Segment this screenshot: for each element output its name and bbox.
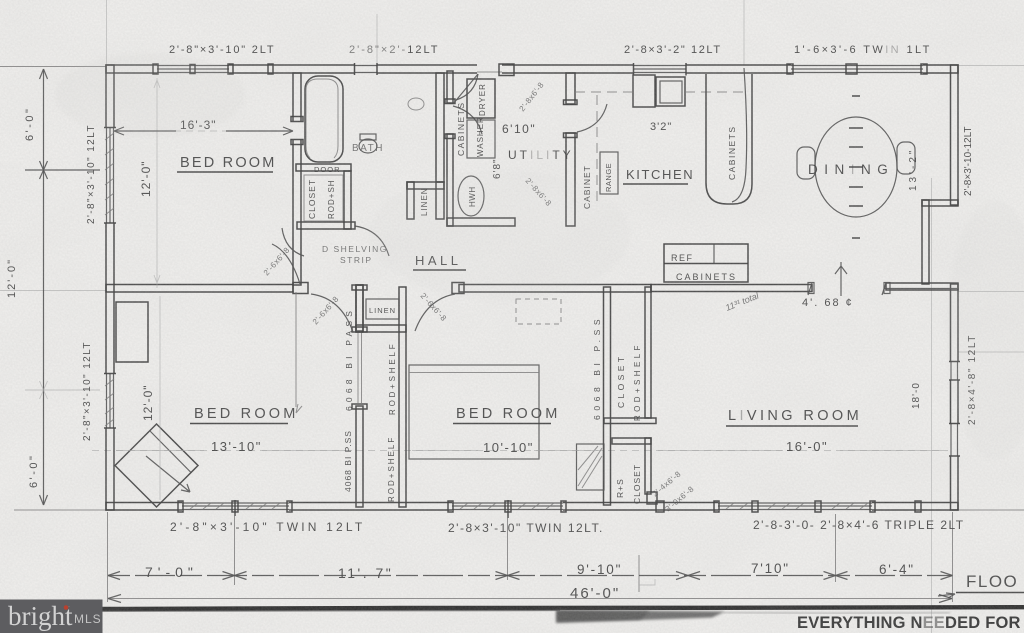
bathtub bbox=[305, 76, 343, 162]
window left BR1bottom jambs bbox=[104, 374, 116, 429]
window top BR1 jamb left bbox=[153, 64, 158, 74]
smudge wedge under heavy rule bbox=[556, 610, 725, 623]
extension line bottom x108 bbox=[107, 512, 109, 602]
REF cabinet divider vertical bbox=[713, 244, 715, 264]
tall cabinet inner curve bbox=[732, 68, 747, 202]
window bottom BR2 center tick bbox=[507, 500, 509, 518]
left dim arrow bottom bbox=[40, 495, 48, 505]
svg-text:bright: bright bbox=[8, 601, 73, 631]
window top dining jamb left bbox=[787, 64, 793, 74]
closet strip BR1: left wall lower bbox=[356, 406, 363, 507]
overall dim left arrow bbox=[108, 595, 121, 603]
window bottom BR1 hatch bbox=[190, 503, 280, 509]
window left BR1bottom lines bbox=[107, 374, 114, 428]
door arc kitchen bbox=[577, 104, 607, 132]
bedroom1 bed inner edge bbox=[150, 431, 191, 473]
window left BR1top gap bbox=[105, 128, 116, 223]
sheet crease right lower bbox=[931, 178, 933, 633]
window left BR1top lines bbox=[107, 128, 114, 223]
left dim tick 170 bbox=[25, 161, 100, 179]
kitchen sink right basin bbox=[656, 77, 685, 106]
jamb bath left wall bottom bbox=[291, 140, 303, 145]
dim line 13-10 right part bbox=[262, 450, 352, 452]
linen closet (bath) left wall bbox=[407, 182, 414, 219]
door top utility sill bbox=[477, 71, 502, 73]
window bottom BR2 gap bbox=[452, 502, 563, 512]
BR2 corner closet hatch lines bbox=[578, 446, 602, 488]
window bottom BR2 jamb left bbox=[448, 501, 453, 512]
window bottom BR2 lines bbox=[452, 503, 563, 510]
jamb bedroom2 door right bbox=[452, 283, 464, 294]
closet strip BR2/living: left wall bbox=[604, 287, 611, 505]
wall utility/kitchen lower bbox=[566, 133, 575, 226]
bottom dim arrows at 835 bbox=[824, 572, 848, 580]
bipass door track BR1 closet line2 bbox=[361, 332, 363, 404]
washer box bbox=[467, 120, 495, 158]
left dim line vertical bbox=[43, 69, 45, 505]
door arc bath closet bbox=[355, 226, 389, 256]
window top BR1 gap bbox=[157, 64, 229, 75]
door top utility jamb stub bbox=[499, 64, 514, 76]
bottom dim arrows at 952 bbox=[941, 572, 953, 580]
dining table bbox=[815, 117, 897, 217]
window left BR1top jambs bbox=[104, 128, 116, 224]
hall bottom wall west segment bbox=[106, 285, 293, 293]
kitchen sink right inner bbox=[660, 81, 682, 103]
jamb living opening left bbox=[808, 283, 814, 294]
door arc utility back door bbox=[456, 74, 478, 100]
wall dining bottom bbox=[886, 283, 958, 290]
wall utility/kitchen upper bbox=[566, 73, 575, 104]
linen closet (bath) right wall bbox=[436, 182, 444, 219]
bottom wall small jamb right of triple bbox=[915, 501, 921, 512]
heavy rule bottom bbox=[95, 607, 1024, 609]
dim 4-68 line dining bbox=[884, 288, 958, 290]
closet strip cap at 418 bbox=[604, 418, 656, 424]
left dim arrow top bbox=[40, 69, 48, 79]
wall utility left lower bbox=[447, 134, 453, 226]
jamb kitchen door bottom bbox=[564, 133, 578, 138]
brightMLS watermark box bbox=[0, 600, 103, 633]
jamb living opening right bbox=[884, 283, 890, 294]
bathtub inner line bbox=[306, 79, 338, 158]
wall jog dining recess top bbox=[922, 200, 958, 206]
extension bracket at 640 bbox=[639, 579, 655, 585]
window top BR1 jamb right bbox=[228, 64, 233, 74]
window bottom living jamb right bbox=[870, 501, 875, 512]
window bottom BR1 gap bbox=[182, 502, 289, 512]
wall dining recess vertical bbox=[922, 200, 929, 284]
left dim tick 390 bbox=[25, 381, 100, 399]
outer wall top bbox=[106, 65, 958, 73]
guide line hall level extension left bbox=[0, 290, 106, 292]
dining chair left bbox=[797, 147, 815, 179]
extension line bottom x835 bbox=[835, 514, 837, 582]
closet bath: inner liner bbox=[304, 175, 343, 221]
bedroom2 bed rectangle bbox=[409, 365, 539, 459]
window bottom living lines bbox=[718, 503, 872, 510]
REF cabinet divider horizontal bbox=[664, 263, 748, 265]
smudge blotch right bbox=[947, 200, 1024, 460]
window bottom BR2 hatch bbox=[460, 503, 554, 509]
HWH circle bbox=[458, 176, 484, 216]
jamb bedroom1 door left bbox=[293, 283, 308, 294]
door arc bedroom2 bbox=[415, 294, 455, 331]
guide line bottom wall extension right bbox=[958, 509, 1024, 511]
toilet tank bbox=[360, 134, 376, 140]
BR2 corner closet hatch box bbox=[577, 444, 605, 490]
linen closet (bath) top wall bbox=[407, 182, 444, 189]
closet strip BR1: cap top bbox=[352, 285, 367, 290]
window top kitchen lines bbox=[634, 66, 686, 73]
smudge wedge core bbox=[557, 611, 650, 622]
bedroom2 bed top inner bbox=[409, 372, 539, 374]
jamb kitchen door top bbox=[564, 100, 578, 105]
window bottom BR1 jamb right bbox=[287, 501, 292, 512]
smudge tail right of wedge bbox=[723, 612, 950, 614]
wall utility left upper bbox=[447, 71, 453, 103]
window right living upper jambs bbox=[949, 362, 960, 381]
svg-text:MLS: MLS bbox=[74, 612, 102, 626]
kitchen counter dash along wall bbox=[596, 95, 598, 205]
wall bath left / bedroom1 right bbox=[293, 73, 301, 285]
bottom dim line y575 bbox=[108, 575, 952, 577]
extension line bottom x234 bbox=[234, 516, 236, 585]
door arc bedroom1 bbox=[311, 294, 353, 332]
wall bath bottom bbox=[296, 164, 351, 171]
range box bbox=[600, 152, 618, 194]
toilet bbox=[359, 139, 377, 153]
guide line top wall extension left bbox=[0, 66, 106, 68]
dim 16-3 line BR1top bbox=[114, 127, 293, 135]
window top BR1 mullion bbox=[190, 65, 195, 74]
window top bath gap bbox=[355, 64, 377, 75]
hall linen closet left wall bbox=[356, 285, 363, 332]
window top bath lines bbox=[355, 66, 377, 73]
bipass door track BR1 closet bbox=[357, 332, 359, 404]
construction line below bath wall bbox=[296, 292, 302, 413]
dim extension 12-0 BR1top vertical bbox=[154, 78, 160, 288]
faint dim guide across bottom rooms bbox=[92, 450, 948, 452]
window right living upper lines bbox=[951, 362, 958, 380]
extension line bottom x952 bbox=[952, 512, 954, 602]
kitchen sink left basin bbox=[633, 75, 655, 107]
dim extension 12-0 BR1 vertical bbox=[159, 296, 161, 500]
opening living leader tick right bbox=[882, 283, 886, 295]
dim 4-68 tick bbox=[835, 262, 847, 296]
sheet crease above kitchen bbox=[743, 0, 745, 65]
R+S closet top wall bbox=[612, 438, 651, 444]
opening living leader tick left bbox=[808, 283, 812, 295]
window right living lower gap bbox=[950, 424, 960, 456]
jamb tick top wall at 270 bbox=[268, 64, 273, 74]
extension line bottom x640 bbox=[638, 555, 640, 592]
smudge blotch hall bbox=[370, 170, 630, 300]
hall bottom wall mid segment bbox=[459, 285, 651, 293]
bedroom1 bed arrow bbox=[146, 456, 190, 492]
overall dim right arrow bbox=[939, 595, 952, 603]
bottom dim arrows at 108 bbox=[108, 572, 120, 580]
outer wall right upper (dining) bbox=[951, 65, 959, 205]
window right living upper gap bbox=[950, 362, 960, 380]
window top dining gap bbox=[791, 64, 923, 75]
REF cabinet outer bbox=[664, 244, 748, 282]
window right living lower lines bbox=[951, 424, 958, 456]
jamb utility door top bbox=[445, 99, 455, 104]
dining table ticks bbox=[849, 96, 863, 238]
guide line dining level extension right bbox=[958, 291, 1024, 293]
closet strip BR1: right wall bbox=[399, 287, 406, 507]
window top dining mullion bbox=[846, 64, 857, 74]
window bottom BR1 center tick bbox=[234, 500, 236, 516]
door arc utility left wall bbox=[453, 106, 482, 134]
washer dryer box bbox=[467, 79, 495, 118]
bedroom2 pillow dashed bbox=[516, 299, 561, 324]
R+S closet right wall bbox=[645, 438, 651, 494]
closet strip BR1: cap upper bbox=[352, 327, 367, 332]
window bottom living mullion 2 bbox=[815, 501, 821, 512]
bottom dim arrows at 688 bbox=[676, 572, 700, 580]
window bottom living mullion 1 bbox=[752, 501, 758, 512]
wall bath right bbox=[436, 73, 444, 182]
window left BR1bottom hatch bbox=[105, 379, 114, 426]
bottom dim arrows at 234 bbox=[223, 572, 247, 580]
window bottom living triple gap bbox=[718, 502, 872, 512]
dim line 16-0 parts bbox=[658, 450, 944, 452]
closet strip BR1: left wall upper bbox=[356, 285, 363, 331]
outer wall left bbox=[106, 65, 114, 510]
jamb bath left wall top bbox=[291, 117, 303, 122]
door arc BR1top room door bbox=[272, 244, 300, 284]
guide line bottom wall extension left with arrow bbox=[14, 509, 106, 511]
faint dim guide top rooms bbox=[114, 130, 293, 132]
window top kitchen gap bbox=[634, 64, 686, 75]
window top BR1 lines bbox=[157, 66, 229, 73]
kitchen counter dash right bbox=[685, 91, 745, 93]
kitchen counter dash left bbox=[575, 91, 633, 93]
window top dining jamb right bbox=[921, 64, 927, 74]
window left BR1top hatch bbox=[105, 133, 114, 215]
outer wall bottom bbox=[106, 503, 958, 511]
underline FLOOR bbox=[956, 592, 1024, 594]
wall utility bottom bbox=[447, 218, 515, 226]
window bottom living hatch bbox=[726, 503, 868, 509]
smudge blotch top left bbox=[55, 53, 245, 137]
closet strip BR2/living: right wall bbox=[645, 287, 651, 418]
door top utility gap bbox=[477, 64, 502, 75]
bedroom1 diagonal bed bbox=[115, 424, 198, 507]
overall dim line 46-0 bbox=[108, 598, 952, 600]
window bottom BR2 mullion bbox=[505, 501, 511, 512]
sheet crease above bath bbox=[376, 14, 378, 65]
window bottom BR1 lines bbox=[182, 503, 289, 510]
window top dining lines bbox=[791, 66, 923, 73]
dim line 13-10 left part bbox=[116, 450, 204, 452]
window right living lower jambs bbox=[949, 424, 960, 457]
hall linen inner box bbox=[366, 299, 399, 319]
closet bath: right wall bbox=[344, 171, 351, 229]
brightMLS red dot bbox=[64, 605, 69, 610]
underline BED ROOM top-left bbox=[177, 171, 273, 173]
underline KITCHEN bbox=[623, 183, 688, 185]
underline BED ROOM bottom-left bbox=[190, 423, 288, 425]
extension line bottom x506 bbox=[507, 518, 509, 580]
outer wall right lower (living) bbox=[951, 284, 959, 510]
window top kitchen jambs bbox=[634, 63, 687, 76]
living room top wall bbox=[651, 285, 812, 292]
window left BR1bottom gap bbox=[105, 374, 116, 428]
dining chair right bbox=[897, 142, 915, 174]
sheet crease left (above house) bbox=[106, 0, 108, 65]
dim line 10-10 parts bbox=[412, 450, 598, 452]
guide line top wall extension right bbox=[958, 65, 1024, 67]
R+S closet step bottom right bbox=[647, 492, 657, 504]
door leaf utility left bbox=[453, 74, 478, 104]
tall cabinet kitchen bbox=[706, 74, 752, 204]
window bottom living jamb left bbox=[714, 501, 719, 512]
guide line right mid bbox=[958, 351, 1024, 353]
opening bath left wall gap bbox=[292, 121, 302, 140]
bath lavatory bbox=[408, 98, 424, 110]
underline HALL bbox=[413, 269, 466, 271]
underline BED ROOM bottom-mid bbox=[453, 423, 551, 425]
bottom wall small jamb near living left bbox=[656, 501, 664, 512]
window bottom BR2 jamb right bbox=[561, 501, 566, 512]
closet bath: bottom wall bbox=[297, 222, 355, 229]
window bottom BR1 mullion bbox=[232, 501, 238, 512]
floor plan leader arrow bbox=[938, 593, 955, 598]
door arc hall/BR1top bbox=[282, 228, 304, 256]
hall linen closet bottom bbox=[356, 325, 406, 332]
bedroom1 dresser bbox=[116, 302, 148, 362]
window top bath jambs bbox=[355, 63, 378, 75]
underline LIVING ROOM bbox=[726, 425, 858, 427]
jamb utility door bottom bbox=[445, 134, 455, 139]
window bottom BR1 jamb left bbox=[178, 501, 183, 512]
bottom dim arrows at 506 bbox=[496, 572, 520, 580]
heavy rule left reinforcement bbox=[95, 609, 560, 612]
closet strip BR1: cap lower bbox=[352, 404, 367, 409]
